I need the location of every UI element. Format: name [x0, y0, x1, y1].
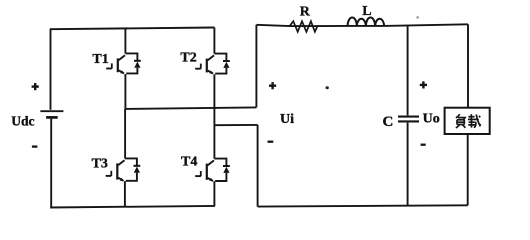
transistor T3 collector corner wire [125, 158, 137, 165]
svg-text:T1: T1 [92, 52, 108, 67]
svg-text:C: C [383, 114, 394, 130]
wire T4 emitter to bottom rail [213, 181, 215, 206]
svg-text:T4: T4 [181, 155, 197, 170]
speck artifact above capacitor [416, 16, 419, 18]
node Uo plus sign [420, 81, 427, 88]
svg-text:R: R [300, 5, 311, 20]
wire T2 collector drop [213, 28, 215, 54]
battery Udc [40, 111, 63, 117]
node Uo minus sign [421, 144, 426, 146]
battery plus sign [32, 83, 39, 90]
wire lower riser to bottom output [257, 125, 259, 207]
svg-text:Udc: Udc [11, 114, 34, 129]
wire T2 emitter to T4 collector [213, 74, 215, 158]
wire left rail lower (battery -) [50, 119, 52, 208]
wire T1 collector drop [124, 28, 126, 53]
transistor T3 gate [106, 171, 112, 176]
wire top rail of bridge [50, 28, 214, 30]
svg-text:L: L [362, 4, 371, 19]
transistor T1 IGBT body [118, 55, 125, 73]
svg-text:Ui: Ui [280, 112, 294, 127]
transistor T1 gate [106, 63, 112, 68]
transistor T2 IGBT body [207, 55, 214, 74]
wire bridge mid output (left leg to riser) [125, 107, 256, 109]
transistor T1 antiparallel diode [126, 61, 141, 74]
label load char 负 [456, 114, 466, 128]
wire capacitor branch lower [407, 123, 409, 206]
inductor L [348, 17, 385, 25]
wire riser to top output [255, 25, 257, 108]
wire bottom output line [258, 205, 468, 206]
wire bottom rail of bridge [50, 206, 215, 208]
battery minus sign [32, 145, 38, 147]
transistor T4 IGBT body [207, 160, 214, 181]
wire top output line [256, 24, 468, 26]
wire left rail upper (battery +) [50, 29, 52, 110]
transistor T4 gate [195, 171, 201, 176]
wire T3 collector drop [124, 109, 126, 158]
transistor T2 antiparallel diode [215, 61, 230, 74]
wire load branch lower [467, 134, 469, 205]
transistor T2 gate [195, 64, 201, 69]
transistor T3 IGBT body [117, 160, 124, 181]
wire T1 emitter to mid node [124, 74, 126, 109]
resistor R [290, 21, 318, 32]
node Ui plus sign [269, 82, 276, 89]
speck artifact near Ui [326, 86, 329, 89]
node Ui minus sign [268, 141, 274, 143]
transistor T2 collector corner wire [214, 54, 226, 61]
svg-text:Uo: Uo [423, 111, 440, 126]
wire load branch upper [467, 24, 469, 107]
load box [445, 108, 490, 134]
label load char 载 [468, 114, 481, 128]
transistor T4 collector corner wire [214, 159, 226, 166]
transistor T1 collector corner wire [125, 53, 137, 60]
transistor T4 antiparallel diode [215, 166, 230, 181]
transistor T3 antiparallel diode [126, 166, 141, 181]
svg-text:T2: T2 [180, 50, 196, 65]
wire T3 emitter to bottom rail [124, 181, 126, 207]
wire capacitor branch upper [407, 26, 409, 116]
svg-text:T3: T3 [92, 156, 108, 171]
wire right leg tap to lower riser [214, 124, 257, 126]
capacitor C [398, 117, 419, 122]
